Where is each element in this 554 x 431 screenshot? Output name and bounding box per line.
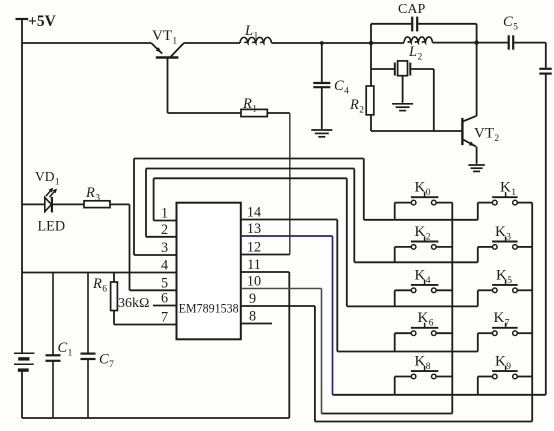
svg-text:LED: LED	[38, 219, 66, 235]
svg-text:7: 7	[161, 310, 168, 326]
svg-text:11: 11	[247, 257, 261, 273]
svg-text:10: 10	[247, 274, 261, 290]
svg-text:CAP: CAP	[398, 2, 425, 17]
svg-text:1: 1	[161, 206, 168, 222]
svg-text:12: 12	[247, 240, 261, 256]
svg-text:2: 2	[161, 222, 168, 238]
svg-text:+5V: +5V	[28, 13, 57, 30]
svg-text:9: 9	[249, 291, 256, 307]
svg-text:6: 6	[161, 291, 168, 307]
svg-text:13: 13	[247, 221, 261, 237]
svg-text:3: 3	[161, 240, 168, 256]
svg-text:5: 5	[161, 275, 168, 291]
svg-text:8: 8	[249, 309, 256, 325]
svg-text:36kΩ: 36kΩ	[118, 296, 149, 311]
svg-text:EM7891538: EM7891538	[179, 302, 239, 316]
svg-text:4: 4	[161, 258, 168, 274]
svg-text:14: 14	[247, 205, 261, 221]
